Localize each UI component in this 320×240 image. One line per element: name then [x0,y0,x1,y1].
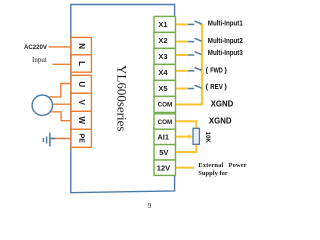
svg-text:AC220V: AC220V [24,44,48,51]
svg-text:12V: 12V [157,164,170,173]
svg-text:Multi-Input1: Multi-Input1 [208,21,243,28]
svg-text:X3: X3 [158,52,167,61]
svg-text:X4: X4 [158,68,168,77]
svg-text:External Power: External Power [198,162,247,169]
svg-text:X5: X5 [158,84,167,93]
svg-text:W: W [77,117,86,125]
svg-text:Supply for: Supply for [198,170,228,177]
svg-text:9: 9 [148,201,152,210]
svg-text:N: N [77,43,86,49]
svg-text:U: U [77,81,86,87]
svg-text:X1: X1 [158,20,167,29]
svg-text:YL600series: YL600series [115,65,130,131]
svg-text:XGND: XGND [211,99,234,109]
svg-text:COM: COM [158,102,173,109]
svg-text:L: L [77,61,86,66]
svg-text:Multi-Input3: Multi-Input3 [208,50,243,57]
svg-text:X2: X2 [158,36,167,45]
svg-text:COM: COM [158,119,173,126]
svg-text:XGND: XGND [209,116,232,126]
svg-text:Multi-Input2: Multi-Input2 [208,38,243,45]
svg-text:AI1: AI1 [157,133,169,142]
svg-text:Input: Input [32,56,47,64]
svg-text:5V: 5V [159,148,168,157]
svg-text:10K: 10K [204,132,210,144]
svg-text:V: V [77,100,86,106]
svg-text:PE: PE [77,134,84,144]
